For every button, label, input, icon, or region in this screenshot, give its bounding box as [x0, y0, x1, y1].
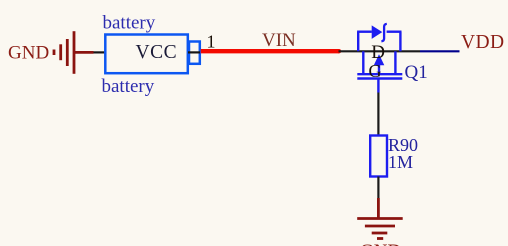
battery component body (VCC source): [105, 35, 200, 74]
wire: VIN to Q1 source: [339, 50, 421, 52]
body arrow of Q1: [374, 54, 385, 65]
svg-text:D: D: [371, 42, 385, 63]
svg-text:battery: battery: [102, 76, 155, 97]
transistor Q1 (P-MOSFET) body diode loop: [357, 32, 401, 52]
svg-text:GND: GND: [360, 241, 401, 246]
wire: R90 to ground: [377, 177, 379, 200]
power ground symbol GND (left): [54, 31, 94, 74]
svg-text:1M: 1M: [388, 152, 413, 172]
svg-text:VDD: VDD: [461, 32, 504, 53]
power ground symbol GND (bottom): [357, 198, 403, 239]
wire: Q1 gate to R90: [377, 93, 379, 136]
svg-text:G: G: [369, 61, 382, 81]
resistor R90 body: [370, 136, 387, 177]
transistor Q1 channel / gate: [357, 51, 402, 92]
svg-text:battery: battery: [103, 12, 156, 33]
svg-text:GND: GND: [8, 43, 49, 64]
svg-text:Q1: Q1: [405, 62, 428, 83]
body diode of Q1 (Schottky): triangle + bent cathode: [372, 25, 383, 39]
svg-text:VIN: VIN: [262, 30, 296, 51]
wire VIN (thick red): [201, 49, 339, 53]
wire: Q1 drain to VDD (navy): [420, 50, 460, 52]
svg-text:1: 1: [207, 32, 216, 52]
wire: ground to battery: [94, 51, 106, 53]
pin 1 of battery: [188, 51, 200, 53]
svg-text:VCC: VCC: [136, 42, 178, 63]
